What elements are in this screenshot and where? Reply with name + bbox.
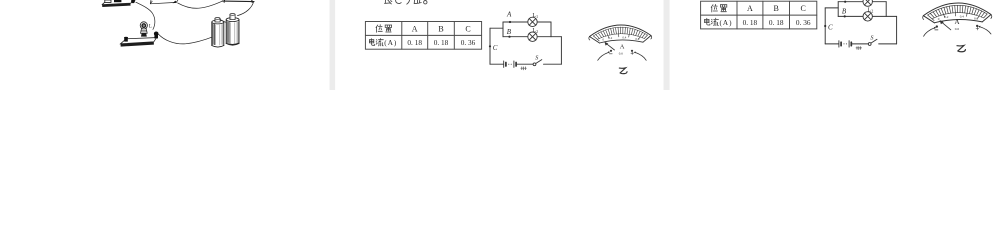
lamp bulb (140, 22, 147, 29)
connector wire battery1 top to battery2 (219, 19, 226, 23)
ammeter details (middle) (598, 42, 647, 61)
lamp base board (121, 38, 157, 44)
wire from board2 to board3 (178, 1, 222, 8)
bench board 3 (top-right sliver, cut) (222, 0, 254, 2)
binding post left (124, 38, 128, 42)
wire from lamp post to battery 1 (159, 34, 214, 44)
ammeter scale band (right) (923, 3, 992, 23)
slide separator band 1 (330, 0, 336, 90)
battery cell 2 (219, 14, 239, 46)
binding post right (lamp terminal) (154, 32, 159, 37)
bench board 1 (top-left, cut) (102, 0, 135, 7)
label 乙 (middle) (619, 68, 627, 74)
slide separator band 2 (664, 0, 670, 90)
bench board 2 (top-middle, cut) (150, 0, 178, 4)
lamp socket (141, 29, 148, 33)
ammeter details (right) (924, 18, 991, 36)
ammeter scale band (middle) (589, 25, 652, 43)
label 乙 (right) (957, 45, 965, 51)
svg-text:L: L (149, 24, 152, 29)
wire from board1 to lamp (136, 2, 155, 29)
wire from board3 down to battery 2 (238, 2, 254, 16)
battery cell 1 (212, 18, 224, 48)
